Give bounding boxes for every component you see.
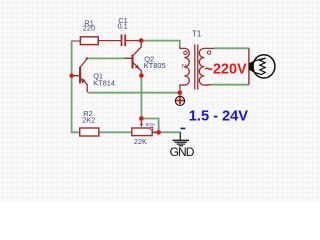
lamp bbox=[249, 55, 275, 78]
svg-text:N: N bbox=[182, 65, 186, 71]
wire stub junction to plus terminal bbox=[179, 93, 181, 97]
svg-text:GND: GND bbox=[170, 145, 195, 159]
primary winding bbox=[180, 46, 189, 88]
core bbox=[194, 45, 196, 90]
junction node after C1 bbox=[139, 38, 144, 43]
wire Q1 collector to Q2 base bbox=[88, 57, 124, 59]
label minus bbox=[181, 128, 186, 130]
junction node Q1 base bbox=[69, 74, 73, 78]
resistor R1 bbox=[98, 40, 121, 42]
resistor R2 bbox=[80, 128, 99, 136]
wire R2 to pot bbox=[99, 131, 132, 133]
wire C1 junction to transformer bbox=[141, 41, 180, 47]
svg-text:0.1: 0.1 bbox=[118, 22, 128, 31]
capacitor C1 bbox=[121, 34, 123, 46]
wire transformer bottom pin to plus junction bbox=[179, 88, 181, 93]
junction node pot right bbox=[156, 130, 161, 135]
svg-text:2K2: 2K2 bbox=[82, 116, 95, 125]
junction node Q2 emitter bbox=[139, 73, 144, 78]
svg-text:KT805: KT805 bbox=[144, 61, 166, 70]
phase dot primary bbox=[184, 51, 187, 54]
wire rail bottom (emitter rail) bbox=[88, 92, 180, 94]
wire secondary bottom to lamp bbox=[211, 84, 249, 86]
wire Q2 emitter to wiper bbox=[140, 76, 142, 119]
svg-text:~220V: ~220V bbox=[204, 62, 247, 78]
svg-text:KT814: KT814 bbox=[93, 79, 115, 88]
wire secondary top to lamp bbox=[214, 47, 249, 49]
svg-text:220: 220 bbox=[83, 24, 95, 33]
transformer T1 bbox=[180, 45, 214, 90]
lamp right vertical connection bbox=[248, 48, 250, 84]
wire R1 left pin bbox=[72, 40, 81, 42]
svg-text:50%: 50% bbox=[146, 122, 156, 128]
svg-text:22K: 22K bbox=[134, 137, 147, 146]
plus terminal bbox=[175, 96, 184, 105]
ground bbox=[173, 132, 190, 146]
junction node wiper bbox=[139, 116, 144, 121]
transistor Q2 bbox=[131, 55, 133, 69]
transistor Q1 bbox=[79, 67, 81, 84]
svg-text:T1: T1 bbox=[192, 29, 201, 38]
junction node plus terminal bbox=[178, 90, 183, 95]
svg-text:1.5 - 24V: 1.5 - 24V bbox=[189, 108, 248, 124]
wire left feedback vertical bbox=[72, 41, 80, 133]
potentiometer 22K bbox=[132, 128, 152, 136]
wire wiper to pot right terminal bbox=[141, 119, 158, 133]
phase dot secondary bbox=[207, 51, 210, 54]
secondary winding bbox=[199, 48, 214, 85]
wire pot to GND bbox=[152, 131, 180, 133]
